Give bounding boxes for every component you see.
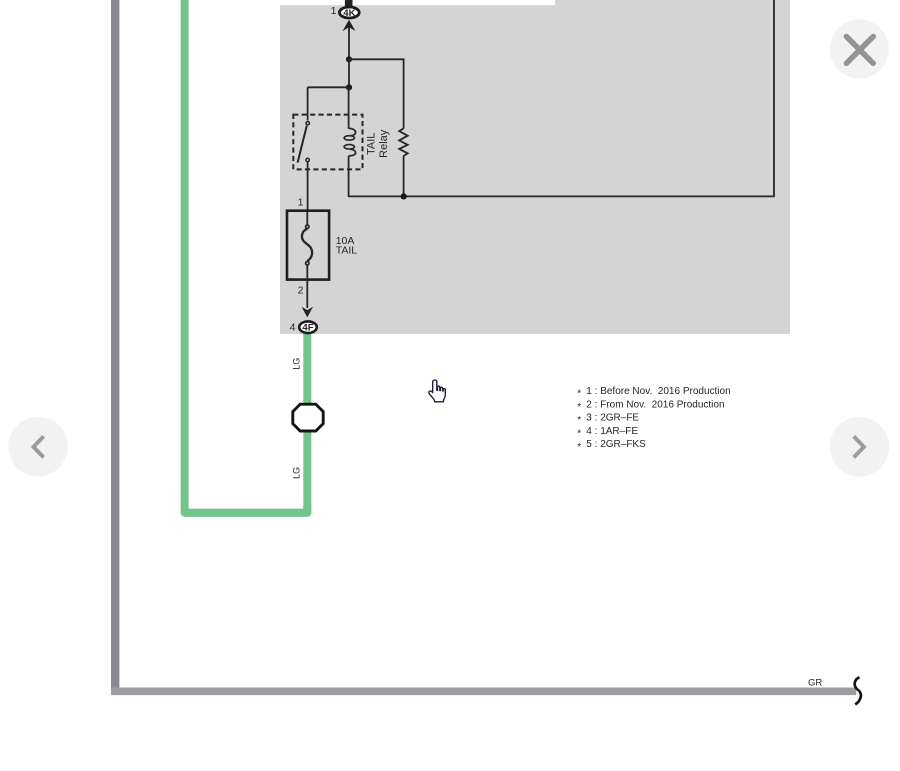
wire: coil feed vertical	[348, 87, 350, 128]
mouse cursor (pointing hand)	[429, 380, 446, 402]
gray wire GR: bottom horizontal	[111, 687, 856, 695]
schematic background panel	[280, 0, 790, 334]
splice octagon	[293, 404, 323, 431]
junction node A	[346, 56, 352, 62]
arrowhead pointing down into 4F	[302, 307, 313, 318]
wire: resistor branch vertical lower	[403, 156, 405, 197]
svg-text:4F: 4F	[302, 323, 313, 334]
svg-text:10ATAIL: 10ATAIL	[336, 235, 358, 257]
svg-text:LG: LG	[292, 467, 302, 479]
nav arrow right	[830, 417, 890, 477]
svg-text:2 : From Nov. 2016 Production: 2 : From Nov. 2016 Production	[586, 399, 724, 410]
fuse element 10A TAIL	[302, 211, 312, 280]
svg-text:GR: GR	[808, 678, 822, 689]
svg-text:4: 4	[290, 322, 296, 334]
svg-text:TAILRelay: TAILRelay	[366, 129, 390, 158]
wire: right border vertical	[773, 0, 775, 196]
svg-text:*: *	[577, 389, 581, 400]
wire: horizontal junction C to switch branch	[308, 86, 349, 88]
relay box TAIL (dashed)	[293, 115, 362, 170]
fuse box	[287, 211, 329, 280]
arrowhead pointing up into 4K	[343, 20, 356, 31]
white cutout above panel	[280, 0, 555, 5]
svg-text:*: *	[577, 429, 581, 440]
svg-text:1: 1	[298, 197, 304, 209]
svg-text:*: *	[577, 402, 581, 413]
wire: horizontal from junction A to resistor branch	[349, 58, 404, 60]
svg-text:1 : Before Nov. 2016 Producti: 1 : Before Nov. 2016 Production	[586, 386, 730, 397]
wire: resistor branch vertical upper	[403, 58, 405, 128]
connector 4F	[299, 321, 317, 333]
svg-text:LG: LG	[292, 358, 302, 370]
relay switch contact	[298, 122, 310, 163]
wire: main vertical junction A to junction C	[348, 59, 350, 87]
wire: switch to fuse	[307, 162, 309, 211]
relay coil	[344, 128, 355, 156]
resistor R (tail relay parallel element)	[399, 128, 408, 156]
wire: thick stub from above into 4K	[345, 0, 353, 7]
svg-text:3 : 2GR–FE: 3 : 2GR–FE	[586, 413, 639, 424]
nav arrow left	[8, 417, 68, 477]
close button	[830, 19, 889, 78]
svg-text:2: 2	[298, 285, 304, 297]
footnote list	[577, 386, 730, 453]
wire: bottom rail from coil to right border	[349, 195, 775, 197]
svg-text:5 : 2GR–FKS: 5 : 2GR–FKS	[586, 439, 646, 450]
connector 4K	[339, 7, 359, 19]
svg-text:*: *	[577, 442, 581, 453]
wire: main vertical from arrow to junction A	[348, 26, 350, 59]
wire break squiggle at GR end	[855, 677, 861, 704]
junction node C	[346, 84, 352, 90]
wire: fuse to 4F arrow	[306, 280, 308, 308]
wire: coil to bottom rail	[348, 156, 350, 197]
svg-text:1: 1	[331, 5, 337, 17]
green wire LG: 4F down, across, and up the left side	[185, 0, 308, 513]
svg-text:4K: 4K	[343, 8, 355, 19]
svg-text:4 : 1AR–FE: 4 : 1AR–FE	[586, 426, 638, 437]
svg-text:*: *	[577, 415, 581, 426]
gray wire: left vertical	[111, 0, 119, 694]
junction node B on bottom rail	[401, 193, 407, 199]
wire: switch branch vertical down to contact	[307, 87, 309, 120]
